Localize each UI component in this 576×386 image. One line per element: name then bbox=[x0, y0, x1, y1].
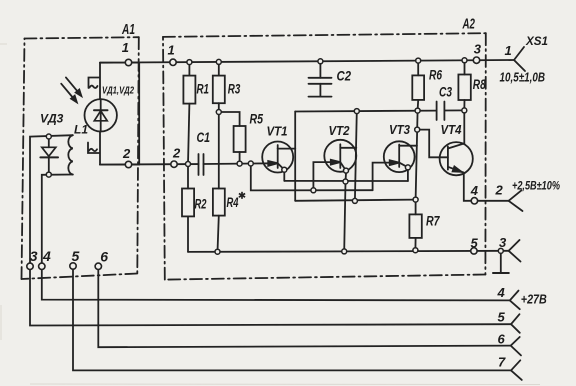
connector XS1 pin 5 contact bbox=[511, 314, 520, 333]
wire lower rail (pin 2) left of C1 bbox=[100, 163, 199, 166]
wire R3 junction to R5 bbox=[219, 112, 240, 126]
ground bar near XS1 pin 3 bbox=[493, 253, 509, 273]
wire to R7 top bbox=[295, 200, 415, 201]
svg-text:VT3: VT3 bbox=[389, 122, 411, 137]
wire emitter rail to bottom rail bbox=[344, 182, 345, 252]
wire pin6 to XS1 pin6 bbox=[98, 270, 510, 348]
wire VT2 collector riser bbox=[355, 111, 357, 201]
wire top rail (pin 1) bbox=[100, 60, 514, 63]
node C2 top bbox=[318, 59, 323, 64]
node R6 top bbox=[416, 58, 421, 63]
wire VT4 emitter to pin 4 bbox=[464, 173, 509, 201]
node collector riser bottom bbox=[352, 198, 357, 203]
capacitor C2 bbox=[309, 61, 332, 96]
optocoupler housing box bbox=[100, 63, 139, 165]
node ground stub bbox=[498, 248, 503, 253]
pin 4 A2 bbox=[471, 198, 477, 204]
connector XS1 pin 6 contact bbox=[511, 337, 521, 355]
resistor R1 bbox=[183, 62, 195, 164]
node VT1 emitter bbox=[282, 167, 287, 172]
wire VT2 base riser bbox=[313, 162, 337, 190]
node emitter rail bbox=[343, 179, 348, 184]
svg-text:L1: L1 bbox=[74, 123, 88, 137]
svg-text:1: 1 bbox=[505, 43, 512, 58]
svg-text:R2: R2 bbox=[195, 197, 207, 212]
svg-text:C3: C3 bbox=[439, 85, 452, 100]
connector XS1 pin 7 contact bbox=[511, 360, 522, 380]
svg-text:VT4: VT4 bbox=[441, 122, 463, 137]
pin 5 A1 bbox=[70, 263, 76, 269]
pin 1 housing bbox=[125, 59, 131, 65]
svg-text:5: 5 bbox=[471, 236, 479, 251]
svg-text:6: 6 bbox=[100, 249, 108, 265]
svg-text:5: 5 bbox=[72, 248, 80, 264]
wire R8 bottom to VT4 collector bbox=[463, 110, 465, 143]
svg-text:R5: R5 bbox=[250, 112, 264, 127]
wire pin3 to XS1 pin5 bbox=[30, 270, 511, 326]
svg-text:VД1,VД2: VД1,VД2 bbox=[102, 86, 134, 97]
wire R3 bottom to R4 top bbox=[218, 112, 220, 189]
capacitor C1 bbox=[199, 154, 204, 175]
pin 6 A1 bbox=[95, 263, 101, 269]
svg-text:4: 4 bbox=[42, 248, 51, 264]
connector XS1 pin 2 contact bbox=[509, 190, 523, 211]
pin 3 A2 bbox=[473, 57, 479, 63]
node VT4 base branch bbox=[415, 127, 420, 132]
resistor R4 bbox=[213, 189, 225, 252]
node R7 bottom bbox=[413, 248, 418, 253]
svg-text:3: 3 bbox=[474, 42, 482, 57]
svg-text:VT2: VT2 bbox=[329, 123, 351, 138]
svg-text:C2: C2 bbox=[337, 69, 352, 84]
wire VT3 base riser bbox=[373, 163, 396, 191]
svg-text:C1: C1 bbox=[197, 130, 211, 145]
resistor R5 bbox=[234, 126, 246, 164]
wire VD3/L1 top bbox=[30, 135, 73, 263]
svg-text:4: 4 bbox=[470, 183, 479, 198]
node emitter to bottom rail bbox=[342, 249, 347, 254]
pin 3 A1 bbox=[27, 263, 33, 269]
terminal hook top bbox=[89, 78, 100, 89]
resistor R2 bbox=[182, 164, 194, 252]
pin 2 A2 bbox=[171, 161, 177, 167]
node VD3 top bbox=[46, 134, 51, 139]
svg-text:5: 5 bbox=[498, 310, 506, 325]
node R1 top bbox=[187, 60, 192, 65]
node VD3 bottom bbox=[46, 172, 51, 177]
svg-text:R7: R7 bbox=[426, 214, 441, 229]
terminal hook bottom bbox=[88, 143, 99, 154]
diode VD3 bbox=[40, 136, 58, 174]
svg-text:3: 3 bbox=[499, 235, 507, 250]
svg-text:VД3: VД3 bbox=[40, 112, 64, 126]
svg-text:1: 1 bbox=[122, 40, 129, 55]
transistor VT1 bbox=[262, 142, 295, 173]
pin circles bbox=[27, 57, 480, 269]
node R6 bottom bbox=[415, 108, 420, 113]
svg-text:10,5±1,0В: 10,5±1,0В bbox=[500, 71, 546, 85]
transistor VT3 bbox=[384, 141, 417, 172]
node R7 top bbox=[413, 197, 418, 202]
resistor R7 bbox=[409, 200, 421, 251]
wire pin5 to XS1 pin7 bbox=[73, 269, 511, 370]
node VT3 emitter bbox=[405, 165, 410, 170]
node R8 bottom bbox=[462, 108, 467, 113]
wire R6 bottom to R7 top bbox=[416, 111, 418, 200]
transistor VT4 bbox=[440, 142, 473, 175]
svg-text:7: 7 bbox=[498, 355, 506, 370]
node VT2 collector riser top bbox=[354, 109, 359, 114]
svg-text:XS1: XS1 bbox=[525, 34, 548, 48]
svg-text:4: 4 bbox=[497, 285, 506, 300]
connector XS1 pin 3 contact bbox=[509, 240, 521, 262]
node R4 bottom bbox=[215, 249, 220, 254]
svg-text:VT1: VT1 bbox=[267, 124, 288, 139]
svg-text:R6: R6 bbox=[429, 68, 442, 83]
svg-text:3: 3 bbox=[30, 248, 38, 264]
svg-text:+27В: +27В bbox=[521, 293, 547, 307]
photodiode VD1,VD2 bbox=[85, 99, 117, 131]
svg-text:2: 2 bbox=[122, 146, 131, 161]
svg-text:R4: R4 bbox=[227, 195, 239, 210]
asterisk R4 bbox=[239, 192, 245, 199]
svg-text:А2: А2 bbox=[462, 16, 476, 33]
node R5 bottom bbox=[237, 161, 242, 166]
svg-text:+2,5В±10%: +2,5В±10% bbox=[512, 179, 560, 193]
light arrows bbox=[61, 77, 81, 102]
wire lower rail (pin 2) right of C1 to VT1 base bbox=[204, 162, 275, 165]
wire pin4 to XS1 pin4 bbox=[42, 270, 510, 301]
resistor R3 bbox=[213, 62, 225, 112]
wire VD3/L1 bottom bbox=[42, 175, 73, 264]
box A1 bbox=[22, 37, 139, 279]
node VT2 emitter bbox=[344, 168, 349, 173]
transistor VT2 bbox=[324, 140, 356, 172]
pin 2 housing bbox=[125, 161, 131, 167]
wire bottom rail bbox=[188, 251, 509, 252]
resistor R6 bbox=[412, 61, 424, 111]
svg-text:1: 1 bbox=[168, 43, 175, 58]
box A2 bbox=[163, 33, 486, 279]
svg-text:R8: R8 bbox=[473, 77, 486, 92]
inductor L1 bbox=[68, 135, 72, 174]
wire emitter rail bbox=[284, 170, 408, 182]
node R3 bottom bbox=[216, 110, 221, 115]
pin 4 A1 bbox=[39, 263, 45, 269]
node R3 top bbox=[216, 59, 221, 64]
svg-text:2: 2 bbox=[172, 146, 181, 161]
svg-text:2: 2 bbox=[495, 183, 504, 198]
connector XS1 pin 1 contact bbox=[514, 47, 525, 71]
wire collector rail left of C3 bbox=[295, 110, 436, 113]
node R8 top bbox=[462, 58, 467, 63]
connector XS1 pin 4 contact bbox=[510, 291, 520, 310]
R8 tick mark bbox=[484, 80, 485, 84]
node base drop bbox=[248, 161, 253, 166]
capacitor C3 bbox=[437, 102, 445, 121]
node R1 bottom bbox=[186, 162, 191, 167]
pin 1 A2 bbox=[170, 59, 176, 65]
svg-text:6: 6 bbox=[498, 332, 506, 347]
pin 5 A2 bbox=[471, 248, 477, 254]
svg-text:А1: А1 bbox=[121, 21, 135, 38]
wire VT1 collector riser bbox=[294, 112, 296, 201]
wire base rail drop bbox=[251, 164, 373, 191]
junction donuts bbox=[46, 58, 503, 254]
node VT2 base riser bbox=[311, 188, 316, 193]
resistor R8 bbox=[458, 60, 470, 110]
wire collector rail right of C3 bbox=[444, 109, 464, 111]
svg-text:R3: R3 bbox=[228, 82, 241, 97]
wire VT4 base branch bbox=[417, 130, 448, 158]
svg-text:R1: R1 bbox=[197, 82, 210, 97]
